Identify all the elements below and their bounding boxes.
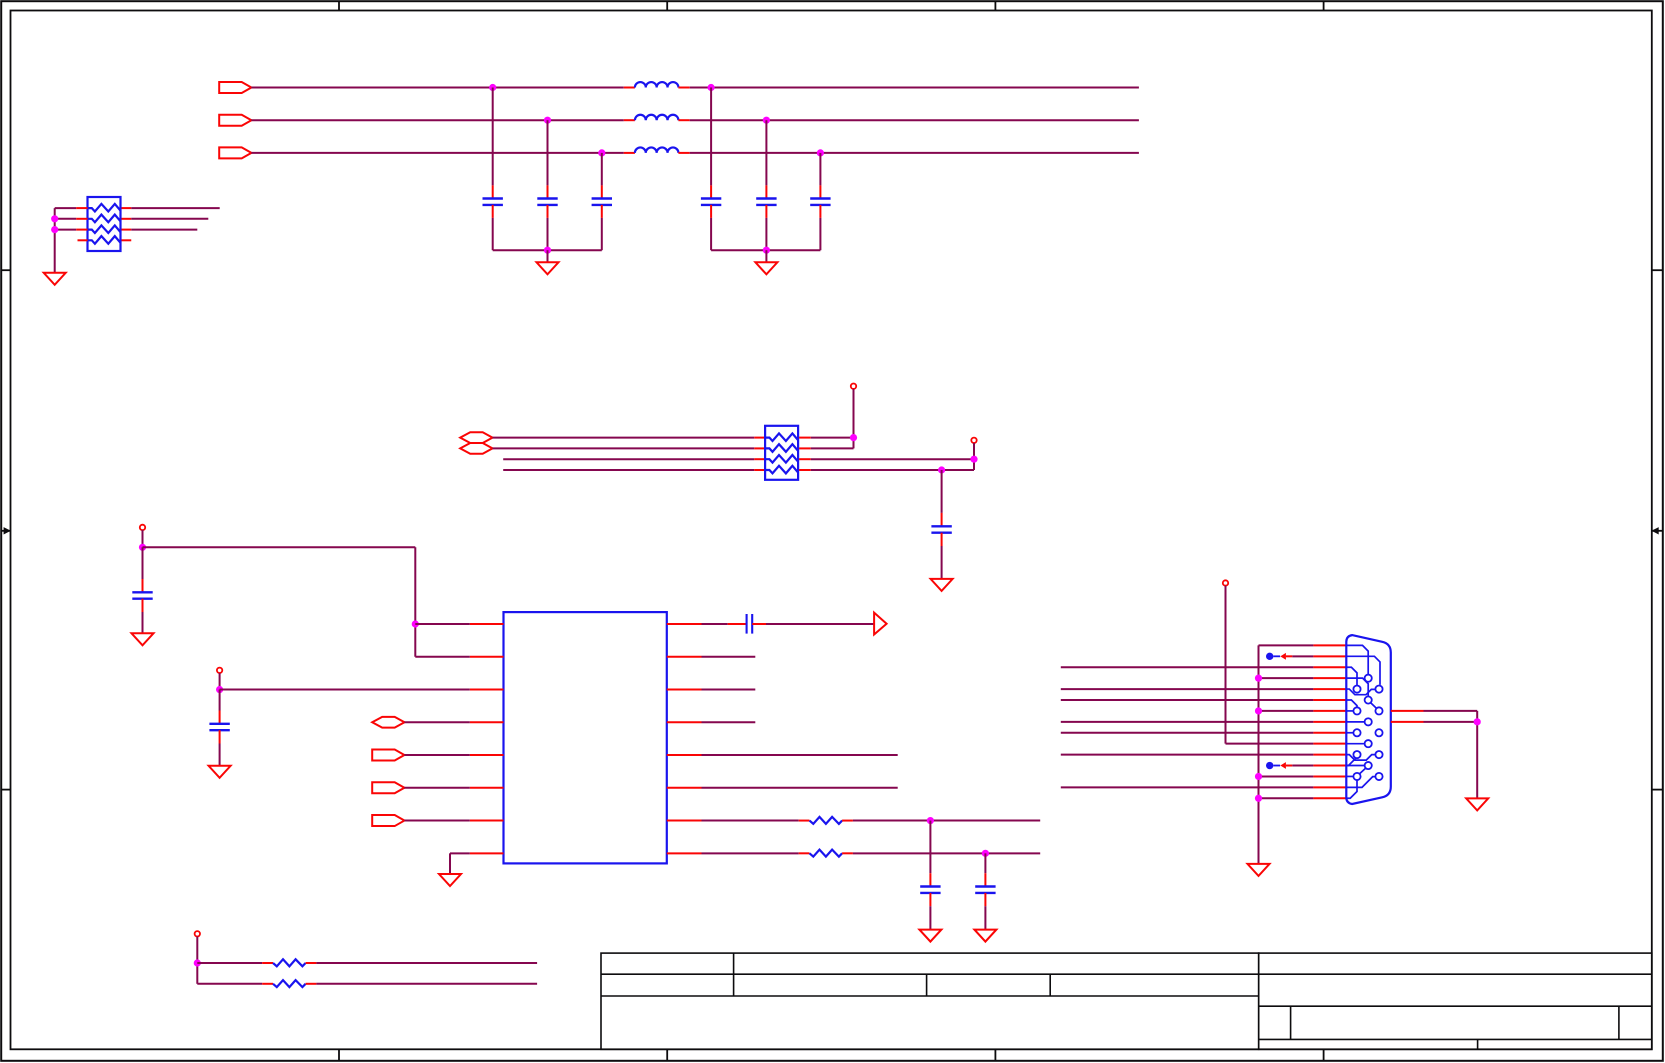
node junction — [1474, 718, 1481, 725]
wire cap branch C2 — [547, 120, 549, 185]
wire ground bus right — [711, 249, 820, 251]
capacitor C11 — [920, 885, 940, 887]
wire R6 — [702, 787, 898, 789]
inductor L1 — [624, 87, 635, 89]
wire R3 net top — [197, 962, 262, 964]
wire pin net — [702, 852, 799, 854]
node junction — [194, 959, 201, 966]
node RN1 junctions — [51, 215, 58, 222]
no-connect pin V2 — [971, 438, 976, 443]
no-connect pin V4 — [217, 668, 222, 673]
port P6 — [372, 815, 404, 826]
pin stubs RN1 right — [122, 207, 132, 209]
ground GND-C9 — [209, 766, 231, 778]
ground GND-J1R — [1466, 798, 1488, 810]
pin stubs J1 left — [1313, 644, 1346, 646]
capacitor C1 — [483, 197, 503, 199]
wire RN2 out 3 — [811, 458, 974, 460]
wire R3 — [702, 689, 756, 691]
no-connect pin V6 — [1223, 580, 1228, 585]
node junction — [850, 434, 857, 441]
wire pin7 — [404, 820, 469, 822]
wire R4 — [702, 721, 756, 723]
wire after inductors — [690, 87, 1139, 89]
ground GND-U1 — [439, 874, 461, 886]
connector J1 internal traces — [1346, 645, 1380, 798]
pin stubs U1 right — [667, 623, 702, 625]
wire pin6 — [404, 787, 469, 789]
port P1 — [219, 82, 251, 93]
pin stubs RN2 left — [754, 437, 765, 439]
wire C12 branch — [984, 853, 986, 873]
node junction C4 — [708, 84, 715, 91]
capacitor C4 — [701, 197, 721, 199]
capacitor C10 series — [728, 623, 747, 625]
wire pin5 — [404, 754, 469, 756]
wire R1 net — [702, 623, 728, 625]
wire V6 to pin10 — [1225, 586, 1227, 744]
wire to gnd bus — [601, 218, 603, 250]
wire connector ground bus — [1258, 645, 1260, 864]
port PB1 — [460, 432, 492, 443]
port P3 — [219, 147, 251, 158]
wire pin8 to ground — [450, 852, 470, 854]
node junction — [927, 817, 934, 824]
resistor R3 — [262, 962, 273, 964]
wire RN2 out 1 — [811, 437, 854, 439]
wire cap branch — [941, 470, 943, 513]
no-connect pin V1 — [851, 384, 856, 389]
port P5 — [372, 782, 404, 793]
resistor network RN1 — [88, 197, 121, 251]
node bus junctions — [1255, 675, 1262, 682]
node junction C2 — [544, 117, 551, 124]
port P2 — [219, 115, 251, 126]
wire V2 stem — [973, 443, 975, 470]
wire cap branch C1 — [492, 88, 494, 186]
wire V5 stem — [196, 937, 198, 984]
pin stubs U1 left — [470, 623, 504, 625]
resistor R1 — [799, 820, 810, 822]
connector J1 body — [1346, 635, 1391, 804]
wire R4 net bottom — [197, 983, 262, 985]
wire V4 net — [219, 673, 221, 690]
pin stubs RN1 left — [76, 207, 87, 209]
node junction C3 — [598, 149, 605, 156]
capacitor C12 — [975, 885, 995, 887]
wire cap branch C4 — [710, 88, 712, 186]
wire V1 stem — [853, 389, 855, 449]
inductor L3 — [624, 152, 635, 154]
capacitor C8 — [132, 591, 152, 593]
resistor R4 — [262, 983, 273, 985]
wire R5 — [702, 754, 898, 756]
capacitor C5 — [756, 197, 776, 199]
node junction pin1 — [412, 620, 419, 627]
no-connect pin V3 — [140, 525, 145, 530]
capacitor C3 — [592, 197, 612, 199]
wire J1 right to ground — [1424, 710, 1478, 712]
no-connect arrow pin — [1266, 762, 1273, 769]
title block — [601, 953, 1652, 1049]
capacitor C2 — [537, 197, 557, 199]
resistor network RN2 — [765, 426, 798, 480]
wire cap branch C6 — [819, 153, 821, 186]
wire to gnd bus — [492, 218, 494, 250]
pin stubs J1 right — [1391, 710, 1424, 712]
ground GND-C7 — [931, 579, 953, 591]
ground GND-RN1 — [44, 273, 66, 285]
port PB2 — [460, 443, 492, 454]
ground GND-J1 — [1248, 864, 1270, 876]
inductor L2 — [624, 119, 635, 121]
wire phase nets — [251, 87, 623, 89]
wire to pin 1 — [415, 623, 470, 625]
wire pin4 — [405, 721, 470, 723]
node bus junction — [544, 247, 551, 254]
wire RN2 out 4 — [811, 469, 974, 471]
wire V3 net — [142, 530, 144, 547]
connector J1 pin circles — [1353, 675, 1382, 780]
wire to gnd bus — [710, 218, 712, 250]
wire R2 — [702, 656, 756, 658]
wire to gnd bus — [765, 218, 767, 250]
node junction — [982, 850, 989, 857]
node junction cap branch — [938, 466, 945, 473]
wire gnd stem — [547, 250, 549, 262]
wire RN2 inputs — [493, 437, 755, 439]
wire RN1 outputs — [131, 207, 219, 209]
node junction C1 — [489, 84, 496, 91]
wire C11 branch — [929, 821, 931, 874]
resistor R2 — [799, 852, 810, 854]
wire RN1 left bus — [54, 208, 56, 273]
ground GND-C12 — [974, 930, 996, 942]
capacitor C6 — [810, 197, 830, 199]
wire RN2 out 2 — [811, 447, 854, 449]
wire pin net — [702, 820, 799, 822]
wire to gnd bus — [819, 218, 821, 250]
port output arrow — [874, 613, 887, 635]
IC U1 — [504, 612, 667, 863]
ground GND-C8 — [132, 633, 154, 645]
wire to gnd bus — [547, 218, 549, 250]
wire input nets to connector — [1061, 666, 1314, 668]
pin stubs RN2 right — [799, 437, 811, 439]
port PB3 — [372, 717, 404, 728]
capacitor C7 — [931, 525, 951, 527]
port P4 — [372, 750, 404, 761]
wire to ground — [941, 546, 943, 579]
capacitor C9 branch — [219, 690, 221, 711]
capacitor C9 — [209, 723, 229, 725]
capacitor C8 branch — [142, 547, 144, 579]
wire ground bus left — [493, 249, 602, 251]
ground GND-left — [537, 262, 559, 274]
node bus junction — [763, 247, 770, 254]
node junction — [970, 456, 977, 463]
node junction C6 — [817, 149, 824, 156]
no-connect arrow pin — [1266, 653, 1273, 660]
wire cap branch C5 — [765, 120, 767, 185]
ground GND-right — [755, 262, 777, 274]
wire cap branch C3 — [601, 153, 603, 186]
wire to pin 2 — [415, 656, 470, 658]
no-connect pin V5 — [195, 931, 200, 936]
wire gnd stem — [765, 250, 767, 262]
node junction C5 — [763, 117, 770, 124]
ground GND-C11 — [919, 930, 941, 942]
